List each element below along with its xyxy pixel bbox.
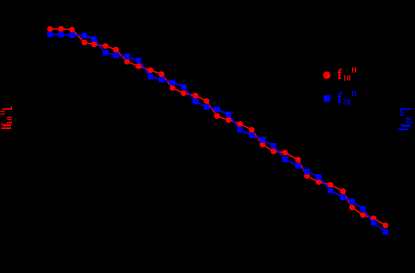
legend label f10^H bbox=[337, 67, 357, 83]
blue series line f20D bbox=[50, 35, 386, 233]
legend label f20^D bbox=[337, 90, 356, 107]
legend marker blue square bbox=[324, 95, 331, 102]
right y-axis label |f20^D| (rotated) bbox=[398, 111, 413, 128]
svg-text:D: D bbox=[351, 90, 356, 98]
svg-text:H: H bbox=[351, 67, 357, 75]
red series markers bbox=[47, 26, 388, 228]
svg-text:f: f bbox=[337, 67, 342, 83]
svg-text:20: 20 bbox=[343, 97, 351, 106]
svg-text:D: D bbox=[399, 111, 406, 116]
red series line f10H bbox=[50, 29, 386, 226]
svg-text:f: f bbox=[337, 91, 342, 107]
svg-text:20: 20 bbox=[404, 117, 414, 126]
svg-text:10: 10 bbox=[4, 116, 14, 125]
blue series markers bbox=[47, 32, 388, 235]
legend marker red circle bbox=[323, 72, 330, 79]
svg-text:H: H bbox=[0, 110, 7, 115]
svg-text:10: 10 bbox=[343, 73, 351, 82]
left y-axis label |f10^H| (rotated) bbox=[0, 110, 14, 127]
